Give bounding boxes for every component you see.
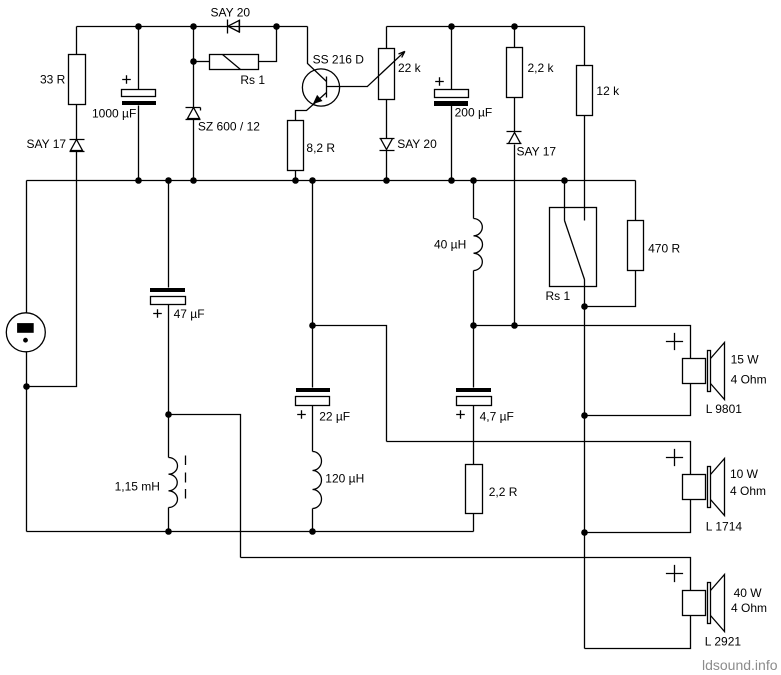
- svg-text:12 k: 12 k: [596, 84, 620, 98]
- wire speaker3 top loop: [241, 558, 691, 591]
- wire mid node drop: [312, 181, 314, 326]
- wire bus drop to source: [26, 181, 28, 313]
- wire 12k top lead: [584, 27, 586, 66]
- wire 4,7uF to 2,2R: [473, 406, 475, 465]
- wire 4,7uF top lead: [473, 326, 475, 388]
- svg-text:22 k: 22 k: [398, 61, 422, 75]
- wire 200uF bottom lead: [451, 106, 453, 181]
- node bus 40uH: [470, 177, 477, 184]
- svg-text:2,2 k: 2,2 k: [528, 61, 555, 75]
- svg-text:SS 216 D: SS 216 D: [313, 52, 365, 66]
- wire 470R top lead: [635, 181, 637, 221]
- svg-text:SZ 600 / 12: SZ 600 / 12: [198, 120, 260, 134]
- node top SZ600: [190, 23, 197, 30]
- wire 22k pot to SAY20: [386, 100, 388, 139]
- wire 2,2k to SAY17: [514, 98, 516, 132]
- svg-text:4,7 µF: 4,7 µF: [480, 410, 514, 424]
- wire 12k down into relay: [584, 116, 586, 221]
- wire 47uF top lead: [168, 181, 170, 288]
- potentiometer 22 k: [379, 49, 395, 100]
- wire 33R top lead: [76, 27, 78, 55]
- wire speaker return trunk: [584, 307, 586, 649]
- wire 200uF top lead: [451, 27, 453, 90]
- wire bus: [27, 180, 636, 182]
- wire Q1 base: [327, 86, 368, 88]
- relay contact Rs 1: [550, 208, 597, 287]
- capacitor 4,7 uF: [456, 388, 491, 392]
- fuse Rs 1 diagonal: [223, 55, 241, 70]
- wire 1000uF top lead: [138, 27, 140, 90]
- node mid SAY17: [511, 322, 518, 329]
- transistor Q1 SS 216 D: [302, 69, 339, 106]
- capacitor 1000 uF: [122, 90, 156, 97]
- node relay output: [581, 303, 588, 310]
- inductor 1,15 mH: [169, 458, 178, 508]
- wire Q1 collector: [308, 27, 327, 82]
- svg-text:15 W: 15 W: [731, 353, 760, 367]
- wire speaker2 bottom loop: [585, 500, 691, 533]
- wire 1,15mH bottom lead: [168, 508, 170, 532]
- speaker L 9801 plus terminal: [666, 333, 683, 350]
- svg-text:200 µF: 200 µF: [455, 106, 493, 120]
- svg-text:4 Ohm: 4 Ohm: [731, 601, 767, 615]
- wire speaker1 top loop: [474, 326, 691, 359]
- node rail 120uH: [309, 528, 316, 535]
- node bus relay: [561, 177, 568, 184]
- resistor 8,2 R: [288, 121, 304, 171]
- node bus SZ600: [190, 177, 197, 184]
- wire 40uH top lead: [473, 181, 475, 219]
- wire 8,2R bottom lead: [295, 171, 297, 181]
- diode SAY 20 vertical: [380, 139, 395, 151]
- node bus SAY20: [383, 177, 390, 184]
- capacitor 22 uF: [296, 388, 330, 392]
- wire top rail right segment: [387, 26, 585, 28]
- capacitor 200 uF plus: [435, 77, 444, 86]
- wire source to bottom rail: [26, 352, 28, 532]
- wire 22uF to 120uH: [312, 406, 314, 452]
- svg-text:40 W: 40 W: [734, 586, 763, 600]
- capacitor 1000 uF plus: [122, 75, 131, 84]
- node speaker1 return: [581, 412, 588, 419]
- wire relay switch diagonal: [565, 221, 585, 280]
- node top Rs1: [273, 23, 280, 30]
- wire speaker2 top loop: [387, 442, 691, 475]
- node top 200uF: [448, 23, 455, 30]
- svg-text:2,2 R: 2,2 R: [489, 485, 518, 499]
- wire Rs1 left lead: [194, 61, 210, 63]
- wire relay output lead: [584, 280, 586, 307]
- wire Q1 emitter to 8,2R: [296, 93, 327, 121]
- svg-text:47 µF: 47 µF: [174, 307, 205, 321]
- svg-text:SAY 17: SAY 17: [517, 145, 557, 159]
- svg-text:SAY 17: SAY 17: [27, 137, 67, 151]
- node A left: [23, 383, 30, 390]
- diode SAY 17 right: [507, 132, 522, 144]
- wire 33R to SAY17: [76, 105, 78, 140]
- resistor 470 R: [628, 221, 644, 271]
- svg-text:22 µF: 22 µF: [319, 410, 350, 424]
- resistor 2,2 k: [507, 48, 523, 98]
- svg-text:1,15 mH: 1,15 mH: [115, 480, 160, 494]
- wire SZ600 branch upper: [193, 27, 195, 108]
- wire 470R bottom lead: [585, 271, 636, 307]
- svg-text:40 µH: 40 µH: [434, 238, 466, 252]
- wire SZ600 branch lower: [193, 120, 195, 181]
- wire speaker1 bottom loop: [585, 384, 691, 416]
- capacitor 200 uF: [435, 90, 469, 98]
- svg-text:470 R: 470 R: [648, 242, 680, 256]
- diode SAY 20 horizontal: [228, 20, 240, 34]
- svg-text:ldsound.info: ldsound.info: [702, 657, 778, 673]
- wire 120uH bottom lead: [312, 509, 314, 532]
- wire top rail left segment: [77, 26, 308, 28]
- node rail 1,15mH: [165, 528, 172, 535]
- node bus 1000uF: [135, 177, 142, 184]
- resistor 12 k: [577, 66, 593, 116]
- capacitor 4,7 uF plus: [456, 410, 465, 419]
- svg-text:SAY 20: SAY 20: [397, 137, 437, 151]
- node mid 22uF: [309, 322, 316, 329]
- node top 1000uF: [135, 23, 142, 30]
- svg-text:L 2921: L 2921: [705, 635, 742, 649]
- svg-text:1000 µF: 1000 µF: [92, 107, 136, 121]
- resistor 33 R: [69, 55, 86, 105]
- wire bottom rail: [27, 531, 474, 533]
- inductor 120 uH: [313, 452, 322, 509]
- wire 47uF to node B: [168, 305, 170, 415]
- svg-text:10 W: 10 W: [730, 467, 759, 481]
- wire 22uF top lead: [312, 326, 314, 388]
- wire mid node to speaker2 drop: [313, 326, 387, 442]
- wire SAY17 down across bus: [514, 145, 516, 326]
- svg-text:SAY 20: SAY 20: [211, 6, 251, 20]
- wire SAY20 to bus: [386, 151, 388, 181]
- fuse Rs 1: [210, 55, 259, 70]
- wire 2,2R bottom lead: [473, 514, 475, 532]
- wire node B to speaker3 line: [169, 415, 241, 558]
- node mid 40uH: [470, 322, 477, 329]
- wire 40uH bottom lead: [473, 271, 475, 326]
- zener diode SZ 600/12: [186, 108, 201, 120]
- svg-text:120 µH: 120 µH: [325, 472, 364, 486]
- node bus mid: [309, 177, 316, 184]
- wire SAY17 down to node A: [27, 152, 77, 387]
- svg-text:Rs 1: Rs 1: [546, 289, 571, 303]
- diode SAY 17 left: [70, 140, 85, 152]
- capacitor 47 uF: [150, 288, 185, 292]
- wire 2,2k top lead: [514, 27, 516, 48]
- speaker L 1714 plus terminal: [666, 449, 683, 466]
- speaker L 9801: [683, 359, 706, 384]
- node bus 8,2R: [292, 177, 299, 184]
- node bus 47uF: [165, 177, 172, 184]
- speaker L 1714: [683, 475, 706, 500]
- svg-text:33 R: 33 R: [40, 73, 66, 87]
- svg-text:Rs 1: Rs 1: [240, 73, 265, 87]
- resistor 2,2 R: [466, 465, 483, 514]
- svg-text:4 Ohm: 4 Ohm: [731, 372, 767, 386]
- wire 22k pot top lead: [386, 27, 388, 49]
- potentiometer 22 k wiper arrow: [367, 51, 405, 87]
- node B 47uF junction: [165, 411, 172, 418]
- speaker L 2921 plus terminal: [666, 565, 683, 582]
- wire Rs1 right lead: [259, 27, 277, 62]
- capacitor 47 uF plus: [153, 309, 162, 318]
- source transducer symbol: [6, 313, 45, 352]
- wire node B to 1,15mH: [168, 415, 170, 458]
- capacitor 22 uF plus: [297, 410, 306, 419]
- node bus 200uF: [448, 177, 455, 184]
- inductor 40 uH: [474, 219, 483, 271]
- node top 2,2k: [511, 23, 518, 30]
- wire 1000uF bottom lead: [138, 106, 140, 181]
- inductor 1,15 mH core dashes: [185, 456, 187, 499]
- node speaker2 return: [581, 529, 588, 536]
- node Rs1 left: [190, 58, 197, 65]
- svg-text:L 9801: L 9801: [706, 402, 743, 416]
- speaker L 2921: [683, 591, 706, 616]
- wire relay drive lead: [564, 181, 566, 221]
- svg-text:8,2 R: 8,2 R: [306, 141, 335, 155]
- svg-text:4 Ohm: 4 Ohm: [730, 484, 766, 498]
- wire speaker3 bottom loop: [585, 616, 691, 649]
- svg-text:L 1714: L 1714: [706, 519, 743, 533]
